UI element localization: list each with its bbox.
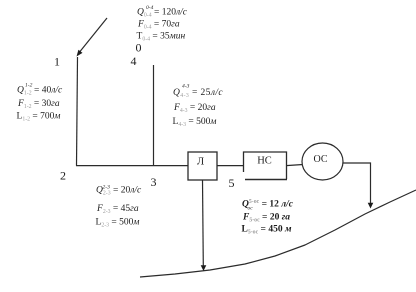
wire: vertical collector 0/4-3	[153, 65, 155, 166]
svg-text:T0-4 = 35мин: T0-4 = 35мин	[137, 32, 186, 43]
svg-text:Q4-3 = 25л/с: Q4-3 = 25л/с	[173, 88, 223, 99]
value labels: section 2-3 (bottom left)	[96, 186, 143, 229]
value labels: section 5-ОС (bottom middle, bold)	[242, 199, 294, 236]
svg-text:1-2: 1-2	[25, 83, 33, 89]
svg-text:2-3: 2-3	[103, 185, 111, 191]
svg-text:F1-2 = 30га: F1-2 = 30га	[17, 99, 60, 110]
river curve	[140, 190, 416, 277]
svg-text:3: 3	[151, 175, 157, 189]
svg-text:L4-3 = 500м: L4-3 = 500м	[173, 117, 217, 128]
svg-text:Л: Л	[197, 157, 204, 168]
value labels: section 1-2 (left)	[17, 86, 64, 123]
svg-text:Q0-4 = 120л/с: Q0-4 = 120л/с	[137, 8, 188, 19]
svg-text:F2-3 = 45га: F2-3 = 45га	[96, 204, 139, 215]
svg-text:ос: ос	[248, 206, 254, 212]
svg-text:1: 1	[54, 55, 60, 69]
value labels: section 0-4 (top)	[137, 8, 188, 43]
wire: inlet diagonal arrow into node 1	[80, 18, 107, 52]
svg-text:0-4: 0-4	[146, 4, 154, 11]
wire: box НС to circle ОС	[286, 165, 303, 166]
value labels: section 4-3 (middle right of line)	[173, 88, 224, 128]
wire: box Л to box НС	[217, 165, 244, 167]
arrowhead: Л outfall at river	[201, 265, 207, 271]
svg-text:F4-3 = 20га: F4-3 = 20га	[173, 103, 216, 114]
box НС (nasosnaya stantsiya)	[244, 152, 288, 180]
svg-text:0: 0	[136, 41, 142, 55]
svg-text:F5-ос = 20 га: F5-ос = 20 га	[242, 213, 290, 224]
circle ОС (ochistnye sooruzheniya)	[302, 143, 343, 180]
wire: vertical collector 1-2	[77, 57, 78, 166]
box Л (lokalnye ochistnye)	[188, 152, 217, 180]
svg-text:L5-ос = 450 м: L5-ос = 450 м	[242, 225, 292, 236]
wire: horizontal main 2 to box Л	[76, 165, 188, 167]
svg-text:F0-4 = 70га: F0-4 = 70га	[137, 20, 180, 31]
svg-text:L1-2 = 700м: L1-2 = 700м	[17, 112, 61, 123]
arrowhead: ОС outfall at river	[368, 203, 374, 209]
faint superscript marks on Q labels	[25, 4, 253, 212]
svg-text:L2-3 = 500м: L2-3 = 500м	[96, 218, 140, 229]
arrowhead: inlet arrow at node 1	[77, 50, 83, 57]
svg-text:ОС: ОС	[313, 154, 327, 165]
wire: box Л outfall arrow down to river	[202, 180, 205, 266]
svg-text:НС: НС	[257, 156, 272, 167]
svg-text:4-3: 4-3	[182, 83, 190, 90]
svg-text:Q1-2 = 40л/с: Q1-2 = 40л/с	[17, 86, 63, 97]
svg-text:5: 5	[229, 176, 235, 190]
svg-text:2: 2	[60, 169, 66, 183]
wire: circle ОС to river with arrow	[343, 163, 371, 204]
svg-text:4: 4	[131, 54, 137, 68]
